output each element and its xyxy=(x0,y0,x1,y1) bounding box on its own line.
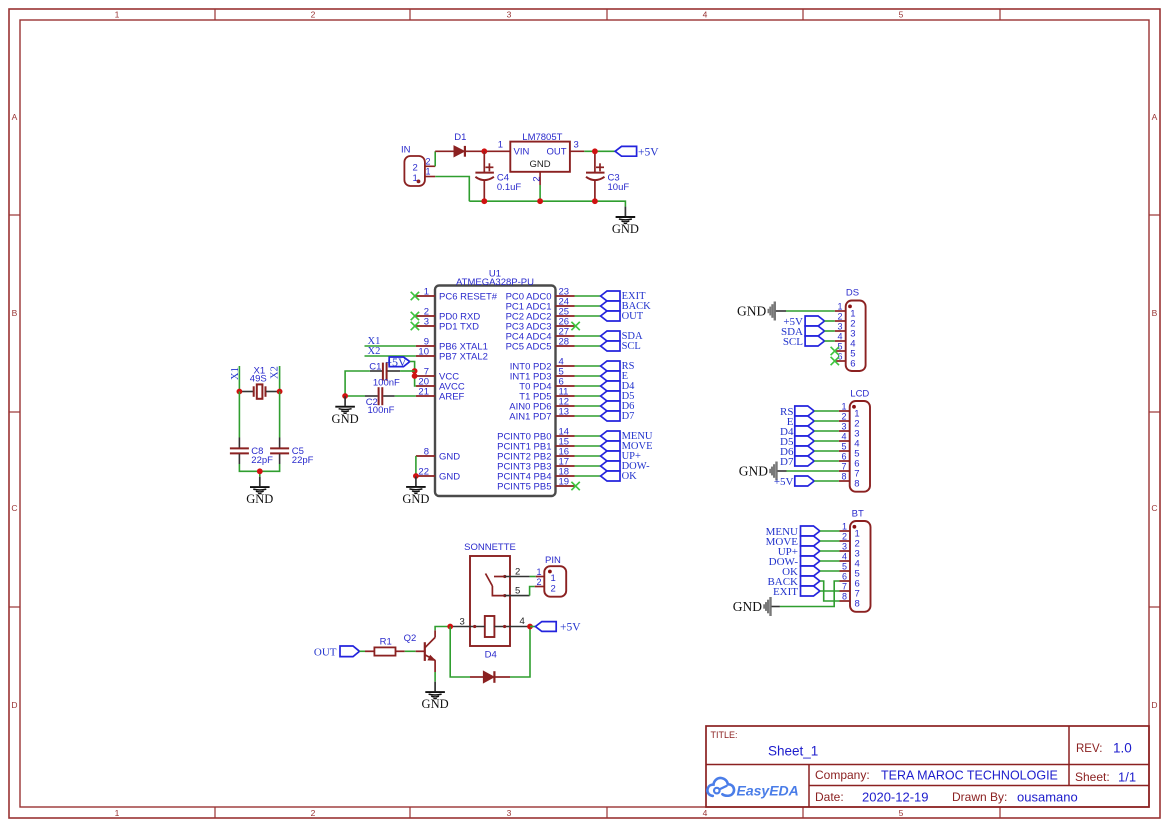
svg-text:1: 1 xyxy=(551,573,556,584)
svg-text:1: 1 xyxy=(842,522,847,532)
svg-text:OUT: OUT xyxy=(546,147,566,158)
svg-text:3: 3 xyxy=(837,322,842,332)
connector IN xyxy=(401,145,435,187)
svg-text:LCD: LCD xyxy=(850,389,869,400)
net flag SCL (DS) xyxy=(783,336,825,348)
connector PIN xyxy=(535,555,567,597)
wire X1 to C8 xyxy=(238,392,240,438)
wire pin to flag SCL xyxy=(575,345,601,347)
svg-text:4: 4 xyxy=(837,332,842,342)
svg-text:IN: IN xyxy=(401,145,411,156)
svg-text:ATMEGA328P-PU: ATMEGA328P-PU xyxy=(456,277,534,288)
svg-text:4: 4 xyxy=(520,616,525,627)
net flag UP+ xyxy=(601,451,641,462)
svg-text:0.1uF: 0.1uF xyxy=(497,182,521,193)
svg-text:OUT: OUT xyxy=(314,647,337,659)
junction OUT node xyxy=(592,148,598,154)
wire U1 GND pins xyxy=(415,456,417,476)
svg-text:10: 10 xyxy=(418,347,429,358)
wire Q2 collector to relay coil node xyxy=(435,627,450,631)
svg-text:5: 5 xyxy=(515,586,520,597)
net flag SDA xyxy=(601,331,643,342)
net flag +5V (power out) xyxy=(615,146,659,158)
svg-text:GND: GND xyxy=(612,222,639,236)
net flag D7 (LCD) xyxy=(780,456,814,468)
net flag BACK xyxy=(601,301,652,312)
svg-text:2: 2 xyxy=(551,584,556,595)
svg-text:1: 1 xyxy=(536,567,541,577)
ground GND (power rail) xyxy=(612,207,639,237)
junction crystal left xyxy=(237,389,243,395)
junction coil pin4 node xyxy=(527,624,533,630)
svg-text:1/1: 1/1 xyxy=(1118,770,1136,785)
net flag MENU (BT) xyxy=(766,526,820,538)
transistor Q2 xyxy=(404,630,436,672)
wire C1 to VCC net xyxy=(400,370,415,372)
wire BT pin6 to GND xyxy=(780,581,840,607)
svg-text:C: C xyxy=(11,503,17,513)
ground GND (BT) xyxy=(733,597,780,616)
svg-text:C1: C1 xyxy=(369,361,381,372)
svg-text:D7: D7 xyxy=(780,456,794,468)
net flag D4 (LCD) xyxy=(780,426,814,438)
net flag EXIT (BT) xyxy=(773,586,820,598)
net flag OK (BT) xyxy=(782,566,820,578)
svg-text:REV:: REV: xyxy=(1076,743,1102,755)
IC U1 ATMEGA328P-PU xyxy=(416,269,575,497)
wire pin to flag OUT xyxy=(575,315,601,317)
svg-text:22pF: 22pF xyxy=(251,455,273,466)
wire relay pin5 to PIN pin2 xyxy=(530,587,535,596)
svg-text:GND: GND xyxy=(733,599,762,614)
no-connect pin 26 xyxy=(571,322,579,330)
capacitor C1 100nF xyxy=(369,361,400,388)
svg-text:PC5 ADC5: PC5 ADC5 xyxy=(506,342,552,353)
net flag D5 (LCD) xyxy=(780,436,814,448)
svg-text:PCINT5 PB5: PCINT5 PB5 xyxy=(497,482,551,493)
svg-text:+5V: +5V xyxy=(638,146,659,158)
net flag D7 xyxy=(601,411,635,422)
wire D4 to LCD xyxy=(814,430,839,432)
title block xyxy=(706,726,1149,807)
capacitor C2 100nF xyxy=(365,387,395,416)
no-connect pin 19 xyxy=(571,482,579,490)
svg-text:PIN: PIN xyxy=(545,555,561,566)
svg-text:PB7 XTAL2: PB7 XTAL2 xyxy=(439,352,488,363)
wire SCL to DS xyxy=(825,340,835,342)
net label X1 (crystal left) xyxy=(230,366,241,392)
wire pin to flag D5 xyxy=(575,395,601,397)
svg-text:8: 8 xyxy=(424,447,429,458)
svg-text:Sheet_1: Sheet_1 xyxy=(768,744,818,759)
svg-text:OK: OK xyxy=(622,471,638,482)
wire +5V to DS xyxy=(825,320,835,322)
no-connect pin 1 xyxy=(411,292,419,300)
junction rail C3 xyxy=(592,198,598,204)
svg-text:GND: GND xyxy=(439,472,460,483)
junction crystal GND xyxy=(257,468,263,474)
ground GND (DS) xyxy=(737,302,786,321)
svg-text:GND: GND xyxy=(246,492,273,506)
junction rail C4 xyxy=(481,198,487,204)
wire R1 to Q2 base xyxy=(405,650,416,652)
svg-text:ousamano: ousamano xyxy=(1017,790,1078,805)
regulator U2 LM7805T xyxy=(490,132,584,185)
capacitor C5 22pF xyxy=(270,438,314,466)
wire pin to flag D6 xyxy=(575,405,601,407)
wire ground rail xyxy=(469,201,625,206)
EasyEDA logo xyxy=(707,778,798,799)
svg-text:2: 2 xyxy=(515,567,520,578)
wire IN pin 2 to D1 xyxy=(434,151,436,166)
wire BACK to BT pin8 xyxy=(820,581,840,601)
svg-text:C: C xyxy=(1151,503,1157,513)
svg-text:B: B xyxy=(12,308,18,318)
no-connect DS pin 6 xyxy=(831,357,839,365)
svg-text:OUT: OUT xyxy=(622,311,644,322)
wire pin to flag MENU xyxy=(575,435,601,437)
svg-text:GND: GND xyxy=(402,492,429,506)
net flag +5V (relay) xyxy=(535,622,581,634)
svg-text:5: 5 xyxy=(899,10,904,20)
svg-text:GND: GND xyxy=(739,464,768,479)
svg-text:3: 3 xyxy=(574,139,579,150)
wire crystal ground rail xyxy=(239,464,279,477)
net flag E xyxy=(601,371,628,382)
junction VCC pin xyxy=(412,373,418,379)
svg-text:8: 8 xyxy=(855,599,860,610)
svg-text:GND: GND xyxy=(422,697,449,711)
svg-text:3: 3 xyxy=(842,542,847,552)
svg-text:A: A xyxy=(12,112,18,122)
svg-text:PC6 RESET#: PC6 RESET# xyxy=(439,292,498,303)
net flag SDA (DS) xyxy=(781,326,825,338)
svg-text:R1: R1 xyxy=(380,637,392,648)
wire pin to flag EXIT xyxy=(575,295,601,297)
wire MOVE to BT xyxy=(820,540,840,542)
capacitor C3 10uF xyxy=(586,151,629,201)
junction coil pin3 node xyxy=(447,624,453,630)
junction VCC net C1 xyxy=(412,368,418,374)
wire D4 cathode to +5V node xyxy=(510,627,530,678)
net flag D4 xyxy=(601,381,636,392)
svg-text:3: 3 xyxy=(507,808,512,818)
svg-text:1: 1 xyxy=(425,167,430,177)
svg-text:3: 3 xyxy=(841,422,846,432)
svg-text:2: 2 xyxy=(413,163,418,174)
wire relay pin2 to PIN pin1 xyxy=(530,576,536,578)
svg-text:4: 4 xyxy=(703,10,708,20)
net flag MOVE (BT) xyxy=(766,536,820,548)
relay SONNETTE xyxy=(450,542,530,646)
junction crystal right xyxy=(277,389,283,395)
svg-text:SCL: SCL xyxy=(783,336,803,348)
wire Q2 emitter to GND xyxy=(434,672,436,682)
ground GND (U1) xyxy=(402,477,429,507)
wire pin to flag UP+ xyxy=(575,455,601,457)
svg-text:X2: X2 xyxy=(368,346,381,357)
wire E to LCD xyxy=(814,420,839,422)
diode D1 xyxy=(435,132,490,157)
net flag DOW- xyxy=(601,461,650,472)
net flag UP+ (BT) xyxy=(778,546,820,558)
svg-text:28: 28 xyxy=(559,337,570,348)
wire LCD pin7 to GND xyxy=(787,470,839,472)
capacitor C8 22pF xyxy=(230,438,273,466)
net flag D5 xyxy=(601,391,635,402)
svg-text:GND: GND xyxy=(737,304,766,319)
connector LCD xyxy=(839,389,870,492)
wire OUT to +5V flag xyxy=(584,150,615,152)
net label X2 (crystal right) xyxy=(270,366,281,392)
svg-text:4: 4 xyxy=(841,432,846,442)
wire pin to flag DOW- xyxy=(575,465,601,467)
wire SDA to DS xyxy=(825,330,835,332)
svg-text:2: 2 xyxy=(311,10,316,20)
wire D6 to LCD xyxy=(814,450,839,452)
svg-text:AREF: AREF xyxy=(439,392,465,403)
svg-text:Q2: Q2 xyxy=(404,633,417,644)
junction GND C2 xyxy=(342,393,348,399)
wire node to +5V flag xyxy=(530,626,535,628)
svg-text:D1: D1 xyxy=(454,132,466,143)
net flag D6 (LCD) xyxy=(780,446,814,458)
net flag +5V (DS) xyxy=(783,316,824,328)
svg-text:19: 19 xyxy=(559,477,570,488)
svg-text:SONNETTE: SONNETTE xyxy=(464,542,516,553)
wire VCC stub xyxy=(415,375,416,377)
wire UP+ to BT xyxy=(820,550,840,552)
svg-text:2: 2 xyxy=(532,176,543,181)
net flag RS (LCD) xyxy=(780,406,814,418)
svg-text:1: 1 xyxy=(837,302,842,312)
svg-text:10uF: 10uF xyxy=(608,182,630,193)
svg-text:VIN: VIN xyxy=(514,147,530,158)
svg-text:1: 1 xyxy=(115,10,120,20)
svg-text:2020-12-19: 2020-12-19 xyxy=(862,790,929,805)
wire DS pin1 to GND xyxy=(786,310,835,312)
net flag E (LCD) xyxy=(787,416,814,428)
wire pin to flag D7 xyxy=(575,415,601,417)
wire OK to BT xyxy=(820,570,840,572)
junction U1 GND xyxy=(413,473,419,479)
wire +5V to LCD pin8 xyxy=(814,480,839,482)
svg-text:1: 1 xyxy=(115,808,120,818)
svg-text:+5V: +5V xyxy=(774,476,794,488)
svg-text:Company:: Company: xyxy=(815,768,870,782)
svg-text:Sheet:: Sheet: xyxy=(1075,770,1110,784)
ground GND (LCD) xyxy=(739,462,787,481)
svg-text:6: 6 xyxy=(850,359,855,370)
capacitor C4 0.1uF xyxy=(475,151,521,201)
wire DOW- to BT xyxy=(820,560,840,562)
no-connect DS pin 5 xyxy=(831,347,839,355)
svg-text:5: 5 xyxy=(841,442,846,452)
net flag OK xyxy=(601,471,638,482)
svg-text:22pF: 22pF xyxy=(292,455,314,466)
svg-text:4: 4 xyxy=(842,552,847,562)
svg-text:100nF: 100nF xyxy=(373,377,400,388)
wire pin to flag RS xyxy=(575,365,601,367)
wire pin to flag D4 xyxy=(575,385,601,387)
net flag MOVE xyxy=(601,441,653,452)
svg-text:TERA MAROC TECHNOLOGIE: TERA MAROC TECHNOLOGIE xyxy=(881,769,1058,783)
net label X1 (pin 9) xyxy=(365,336,416,347)
svg-text:8: 8 xyxy=(854,479,859,490)
svg-text:2: 2 xyxy=(311,808,316,818)
svg-text:1.0: 1.0 xyxy=(1113,741,1132,756)
wire LM7805 pin 2 to rail xyxy=(539,185,541,201)
svg-text:A: A xyxy=(1152,112,1158,122)
svg-text:+5V: +5V xyxy=(560,622,581,634)
wire D5 to LCD xyxy=(814,440,839,442)
svg-text:EasyEDA: EasyEDA xyxy=(737,783,799,799)
svg-text:GND: GND xyxy=(332,412,359,426)
ground GND (C1 C2) xyxy=(332,396,359,426)
junction VIN node xyxy=(481,148,487,154)
svg-text:GND: GND xyxy=(530,159,551,170)
wire C2 to AREF xyxy=(395,395,416,397)
svg-text:1: 1 xyxy=(424,287,429,298)
svg-text:+5V: +5V xyxy=(385,355,407,369)
svg-text:2: 2 xyxy=(841,412,846,422)
net flag RS xyxy=(601,361,635,372)
no-connect pin 2 xyxy=(411,312,419,320)
svg-text:8: 8 xyxy=(842,592,847,602)
svg-text:1: 1 xyxy=(841,402,846,412)
net flag OUT xyxy=(314,646,360,659)
svg-text:22: 22 xyxy=(418,467,429,478)
svg-text:2: 2 xyxy=(842,532,847,542)
no-connect pin 3 xyxy=(411,322,419,330)
svg-text:GND: GND xyxy=(439,452,460,463)
crystal X1 49S xyxy=(239,365,279,399)
svg-text:3: 3 xyxy=(424,317,429,328)
svg-text:DS: DS xyxy=(846,288,859,299)
svg-text:LM7805T: LM7805T xyxy=(522,132,562,143)
svg-text:2: 2 xyxy=(536,577,541,587)
svg-text:D: D xyxy=(1151,700,1157,710)
svg-text:AIN1 PD7: AIN1 PD7 xyxy=(509,412,551,423)
wire pin to flag MOVE xyxy=(575,445,601,447)
svg-text:6: 6 xyxy=(842,572,847,582)
wire RS to LCD xyxy=(814,410,839,412)
resistor R1 xyxy=(365,637,405,656)
svg-text:5: 5 xyxy=(842,562,847,572)
svg-text:4: 4 xyxy=(703,808,708,818)
net flag MENU xyxy=(601,431,653,442)
svg-text:TITLE:: TITLE: xyxy=(711,730,738,740)
net flag EXIT xyxy=(601,291,646,302)
svg-text:3: 3 xyxy=(460,617,465,628)
junction rail GND pin xyxy=(537,198,543,204)
wire IN pin 1 to ground rail xyxy=(435,177,469,202)
net flag BACK (BT) xyxy=(767,576,819,588)
svg-text:PD1 TXD: PD1 TXD xyxy=(439,322,479,333)
wire +5V to VCC AVCC xyxy=(410,362,416,387)
svg-text:7: 7 xyxy=(842,582,847,592)
wire EXIT to BT pin7 xyxy=(820,590,840,592)
svg-text:21: 21 xyxy=(418,387,429,398)
svg-text:SCL: SCL xyxy=(622,341,641,352)
wire MENU to BT xyxy=(820,530,840,532)
svg-text:EXIT: EXIT xyxy=(773,586,798,598)
connector DS xyxy=(835,288,866,372)
connector BT xyxy=(840,509,871,612)
wire D7 to LCD xyxy=(814,460,839,462)
svg-text:Drawn By:: Drawn By: xyxy=(952,790,1007,804)
svg-text:49S: 49S xyxy=(250,374,267,385)
ground GND (crystal) xyxy=(246,477,273,507)
net flag +5V (LCD) xyxy=(774,476,814,488)
svg-text:Date:: Date: xyxy=(815,790,844,804)
wire pin to flag SDA xyxy=(575,335,601,337)
net label X2 (pin 10) xyxy=(365,346,416,357)
net flag OUT xyxy=(601,311,644,322)
diode D4 xyxy=(470,650,510,683)
svg-text:D7: D7 xyxy=(622,411,635,422)
ground GND (Q2) xyxy=(422,682,449,712)
net flag D6 xyxy=(601,401,635,412)
svg-text:BT: BT xyxy=(852,509,864,520)
wire X2 to C5 xyxy=(279,392,281,438)
svg-text:100nF: 100nF xyxy=(368,405,395,416)
svg-text:5: 5 xyxy=(899,808,904,818)
svg-text:7: 7 xyxy=(841,462,846,472)
wire node to D4 anode xyxy=(450,627,470,678)
svg-text:2: 2 xyxy=(837,312,842,322)
svg-text:6: 6 xyxy=(841,452,846,462)
net flag SCL xyxy=(601,341,641,352)
svg-text:D4: D4 xyxy=(485,650,497,661)
svg-text:8: 8 xyxy=(841,472,846,482)
svg-text:1: 1 xyxy=(498,139,503,150)
svg-text:13: 13 xyxy=(559,407,570,418)
wire pin to flag OK xyxy=(575,475,601,477)
svg-text:3: 3 xyxy=(507,10,512,20)
wire pin to flag BACK xyxy=(575,305,601,307)
svg-text:B: B xyxy=(1152,308,1158,318)
svg-text:2: 2 xyxy=(425,156,430,166)
svg-text:D: D xyxy=(11,700,17,710)
net flag +5V (VCC) xyxy=(385,355,410,369)
wire OUT to R1 xyxy=(360,650,366,652)
wire GND to C1 and C2 xyxy=(345,371,370,396)
net flag DOW- (BT) xyxy=(769,556,820,568)
wire pin to flag E xyxy=(575,375,601,377)
